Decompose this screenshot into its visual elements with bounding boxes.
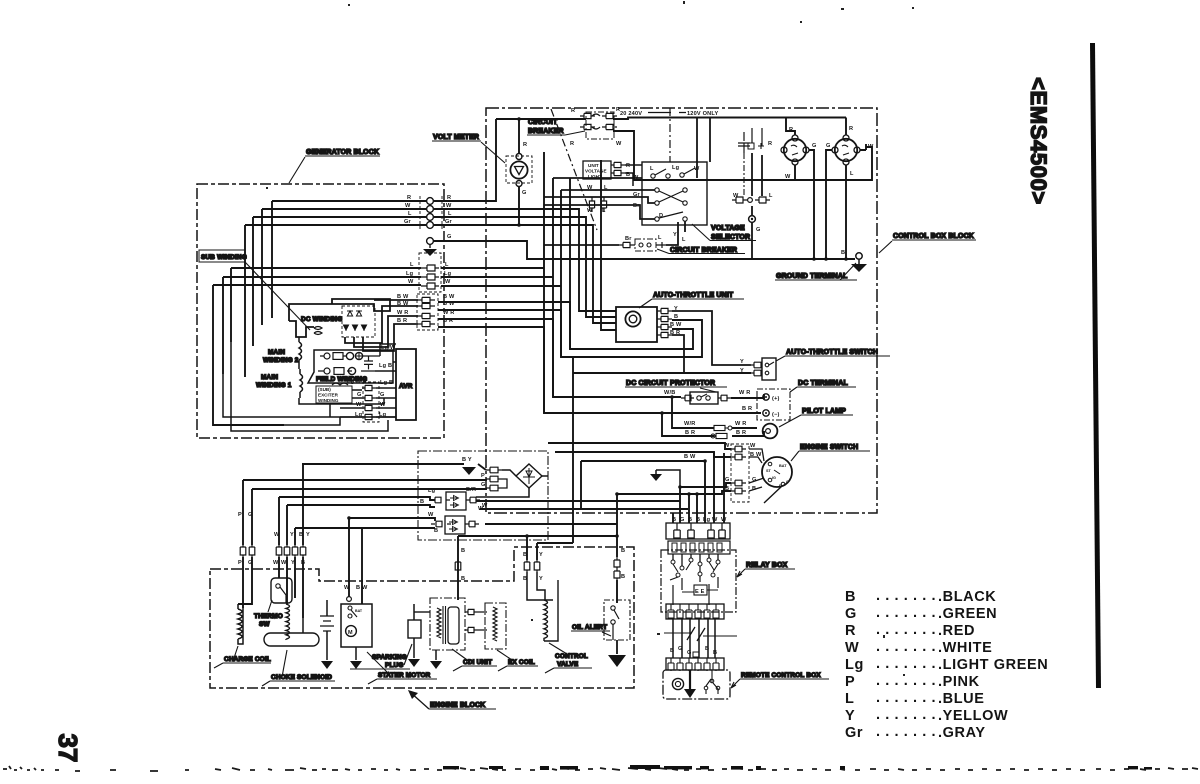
svg-text:PLUG: PLUG bbox=[385, 662, 404, 669]
circuit breaker (top) bbox=[586, 112, 614, 139]
bus B bottom bbox=[458, 535, 617, 537]
circuit breaker 2 bbox=[635, 239, 656, 251]
stater motor bbox=[341, 604, 372, 647]
ex coil bbox=[485, 603, 506, 649]
field winding row1 bbox=[324, 353, 330, 359]
junction BR bbox=[660, 411, 664, 415]
wire WR branch to pilot bbox=[672, 397, 757, 428]
ground stub under G node bbox=[429, 244, 431, 248]
svg-text:MAIN: MAIN bbox=[268, 349, 285, 356]
svg-text:W: W bbox=[445, 279, 451, 285]
svg-text:Y: Y bbox=[740, 359, 744, 365]
vertical feeds selector area down bbox=[696, 118, 698, 179]
svg-text:L: L bbox=[408, 211, 412, 217]
cdi B wire bbox=[457, 536, 459, 600]
wire relay feed W2 column bbox=[723, 453, 725, 523]
control box block boundary bbox=[486, 108, 877, 513]
wire labels W Y B Y bbox=[273, 532, 310, 566]
wire assembly2 output bbox=[485, 523, 617, 525]
SECTION TOPCONTROL bbox=[432, 107, 976, 513]
svg-text:.PINK: .PINK bbox=[938, 674, 980, 690]
svg-text:W/B: W/B bbox=[664, 390, 675, 396]
svg-text:Br: Br bbox=[625, 236, 632, 242]
connector plugs BW BW WR BR bbox=[417, 294, 438, 330]
svg-text:EXCITER: EXCITER bbox=[318, 393, 339, 398]
svg-text:. . . . . . .: . . . . . . . bbox=[876, 622, 936, 638]
svg-text:CHOKE SOLENOID: CHOKE SOLENOID bbox=[271, 674, 332, 681]
svg-text:.YELLOW: .YELLOW bbox=[938, 708, 1008, 724]
scan noise strip bottom bbox=[3, 766, 1198, 771]
auto-throttle switch bbox=[762, 358, 776, 380]
chain verticals 120V bbox=[743, 153, 745, 196]
svg-text:REMOTE CONTROL BOX: REMOTE CONTROL BOX bbox=[741, 672, 821, 679]
svg-text:.GRAY: .GRAY bbox=[938, 725, 986, 741]
svg-text:B R: B R bbox=[397, 318, 407, 324]
svg-text:. . . . . . .: . . . . . . . bbox=[876, 673, 936, 689]
pilot lamp bbox=[763, 424, 778, 439]
wire BR gen to DC terminal bbox=[438, 327, 761, 413]
svg-text:B: B bbox=[674, 314, 678, 320]
wire W mid bbox=[213, 285, 421, 425]
svg-text:120V ONLY: 120V ONLY bbox=[687, 111, 719, 117]
relay feed verticals bbox=[679, 487, 681, 523]
unit voltage light box bbox=[583, 161, 611, 179]
auto-throttle unit plugs bbox=[657, 308, 672, 313]
svg-text:Lg: Lg bbox=[672, 165, 680, 171]
remote lamp bbox=[672, 678, 683, 689]
svg-text:Y: Y bbox=[539, 576, 543, 582]
svg-text:<EMS4500>: <EMS4500> bbox=[1026, 77, 1051, 205]
svg-text:GENERATOR BLOCK: GENERATOR BLOCK bbox=[306, 149, 379, 156]
plug G bbox=[731, 480, 746, 486]
label R / G- near meter bbox=[522, 142, 527, 196]
svg-text:B W: B W bbox=[670, 322, 682, 328]
dc circuit protector bbox=[690, 392, 718, 404]
svg-text:W R: W R bbox=[739, 390, 750, 396]
selector cross switch bbox=[655, 188, 659, 192]
engine switch wire to ground bbox=[764, 486, 782, 503]
svg-text:W: W bbox=[405, 203, 411, 209]
label W pair bbox=[356, 402, 386, 408]
relay bottom strip bbox=[666, 604, 724, 619]
relay box boundary bbox=[661, 550, 736, 612]
sparking plug bbox=[408, 620, 421, 638]
svg-text:OIL ALERT: OIL ALERT bbox=[572, 624, 607, 631]
wire R top bbox=[272, 201, 427, 318]
svg-text:.RED: .RED bbox=[938, 623, 975, 639]
svg-text:W: W bbox=[274, 532, 280, 538]
svg-text:CHARGE COIL: CHARGE COIL bbox=[224, 656, 271, 663]
plugs P G bbox=[240, 545, 246, 557]
label 240V / 120V ONLY bbox=[620, 111, 719, 117]
svg-text:ENGINE SWITCH: ENGINE SWITCH bbox=[800, 444, 858, 451]
engine switch plugs box bbox=[731, 444, 749, 502]
exciter coil bbox=[332, 383, 348, 385]
wire labels BW BW WR BR bbox=[397, 294, 455, 324]
svg-text:B R: B R bbox=[736, 430, 746, 436]
svg-text:VALVE: VALVE bbox=[557, 661, 579, 668]
thermo switch bbox=[278, 557, 280, 578]
auto-throttle unit bbox=[616, 307, 657, 342]
svg-text:. . . . . . .: . . . . . . . bbox=[876, 724, 936, 740]
label G pair bbox=[357, 392, 385, 398]
plugs W W Y B bbox=[276, 545, 282, 557]
CB2 wires bbox=[544, 221, 685, 245]
volt meter bbox=[506, 156, 532, 183]
svg-text:W R: W R bbox=[397, 310, 408, 316]
wire R bus east riser bbox=[434, 119, 496, 201]
svg-text:IG: IG bbox=[772, 476, 776, 480]
svg-text:G: G bbox=[357, 392, 362, 398]
wire Lg mid bbox=[223, 277, 421, 374]
wire BW2 gen to Y2 bbox=[438, 310, 702, 357]
label Lg B right bbox=[379, 363, 392, 369]
wire labels R W L Gr left bbox=[404, 195, 412, 225]
main winding 2 coil bbox=[299, 337, 302, 365]
svg-text:Lg B: Lg B bbox=[379, 363, 392, 369]
svg-text:20 240V: 20 240V bbox=[620, 111, 642, 117]
connector plugs L Lg W bbox=[419, 253, 441, 292]
wire W top bbox=[262, 209, 427, 325]
svg-text:L: L bbox=[650, 166, 654, 172]
diode bridge bbox=[516, 464, 542, 488]
dc winding diode box bbox=[342, 306, 375, 337]
svg-text:DC CIRCUIT PROTECTOR: DC CIRCUIT PROTECTOR bbox=[626, 380, 715, 387]
oil alert ground bbox=[616, 640, 618, 654]
selector feed wires bbox=[553, 177, 642, 179]
svg-text:.WHITE: .WHITE bbox=[938, 640, 992, 656]
scan noise dots top bbox=[266, 1, 914, 676]
svg-text:B: B bbox=[461, 576, 465, 582]
svg-text:P: P bbox=[845, 674, 855, 690]
label B W bbox=[684, 454, 696, 460]
wire BR unit down bbox=[672, 335, 684, 373]
remote control box bbox=[663, 670, 730, 699]
svg-text:R: R bbox=[626, 163, 630, 169]
svg-text:Y: Y bbox=[673, 232, 677, 238]
bus left W stater bbox=[349, 518, 435, 521]
sub winding leader bbox=[245, 262, 310, 330]
svg-text:B W: B W bbox=[356, 585, 368, 591]
label Lg B mid bbox=[347, 379, 393, 386]
choke solenoid capsule bbox=[264, 633, 319, 646]
middle assembly box bbox=[418, 451, 548, 540]
boundary diagonal notch bbox=[551, 109, 597, 230]
wires exciter to plugs bbox=[340, 390, 362, 417]
svg-text:G: G bbox=[522, 190, 527, 196]
plug assembly W L bbox=[732, 197, 748, 203]
wire volt meter bottom to Gr bus bbox=[518, 187, 520, 226]
bus left W2 bbox=[287, 505, 435, 507]
svg-text:CIRCUIT: CIRCUIT bbox=[528, 119, 558, 126]
svg-text:Lg: Lg bbox=[703, 517, 711, 523]
wire L mid bbox=[231, 268, 421, 342]
svg-text:BAT: BAT bbox=[355, 609, 363, 613]
cdi to ex coil plugs bbox=[465, 609, 487, 614]
svg-text:Y: Y bbox=[740, 368, 744, 374]
long W wires to relay bbox=[476, 500, 680, 502]
oil alert feed wire bbox=[616, 494, 618, 557]
svg-text:G: G bbox=[812, 143, 817, 149]
svg-text:G: G bbox=[680, 517, 685, 523]
svg-text:L: L bbox=[850, 171, 854, 177]
svg-text:G: G bbox=[678, 646, 683, 652]
relay top connector strip bbox=[666, 523, 730, 539]
svg-text:W: W bbox=[587, 185, 593, 191]
svg-text:L: L bbox=[682, 237, 686, 243]
svg-text:G: G bbox=[756, 227, 761, 233]
wire labels L Lg W bbox=[406, 262, 452, 285]
svg-text:M: M bbox=[348, 630, 353, 636]
svg-text:. . . . . . .: . . . . . . . bbox=[876, 656, 936, 672]
control valve wires bbox=[526, 536, 528, 560]
ground bbox=[650, 474, 662, 481]
bus left Y bbox=[295, 527, 435, 529]
wire engine W feed bbox=[548, 443, 731, 449]
wire BR branch to pilot bbox=[662, 413, 764, 436]
winding interconnect wires bbox=[298, 365, 300, 369]
svg-text:AVR: AVR bbox=[399, 383, 413, 390]
svg-text:B/R: B/R bbox=[466, 487, 476, 493]
connector plugs to AVR bbox=[362, 382, 379, 422]
svg-text:RELAY BOX: RELAY BOX bbox=[746, 562, 788, 569]
svg-text:R: R bbox=[845, 623, 856, 639]
dc terminal box bbox=[757, 389, 790, 420]
label Lg pair bbox=[355, 412, 387, 418]
svg-text:P: P bbox=[238, 512, 242, 518]
node G connector bbox=[427, 238, 434, 245]
svg-text:R: R bbox=[849, 126, 853, 132]
svg-text:CONTROL: CONTROL bbox=[555, 653, 588, 660]
svg-text:L: L bbox=[845, 691, 854, 707]
svg-text:B W: B W bbox=[397, 301, 409, 307]
svg-text:G: G bbox=[447, 234, 452, 240]
svg-text:G: G bbox=[845, 606, 857, 622]
svg-text:E E: E E bbox=[695, 589, 705, 595]
svg-text:W: W bbox=[750, 443, 756, 449]
svg-text:W: W bbox=[868, 144, 874, 150]
svg-text:G: G bbox=[687, 650, 692, 656]
svg-text:B: B bbox=[621, 574, 625, 580]
svg-text:VOLTAGE: VOLTAGE bbox=[711, 225, 745, 232]
wire BW1 gen to Y1 bbox=[438, 302, 693, 349]
svg-text:B W: B W bbox=[443, 294, 455, 300]
svg-text:(SUB): (SUB) bbox=[318, 387, 331, 392]
svg-text:.GREEN: .GREEN bbox=[938, 606, 997, 622]
svg-text:Lg: Lg bbox=[444, 271, 452, 277]
dc winding outline bbox=[289, 299, 390, 321]
wire Gr top bbox=[245, 225, 427, 377]
svg-text:B: B bbox=[688, 517, 692, 523]
svg-text:W/R: W/R bbox=[684, 421, 695, 427]
svg-text:G: G bbox=[380, 392, 385, 398]
svg-text:W: W bbox=[344, 585, 350, 591]
svg-text:L: L bbox=[410, 262, 414, 268]
svg-text:D: D bbox=[659, 213, 663, 219]
svg-text:W: W bbox=[785, 174, 791, 180]
node G connector bbox=[749, 216, 756, 223]
svg-text:WINDING 1: WINDING 1 bbox=[256, 382, 292, 389]
fuse B R bbox=[714, 433, 727, 438]
pilot wire labels bbox=[664, 390, 752, 436]
svg-text:Lg/W: Lg/W bbox=[381, 345, 396, 351]
ground capacitor bbox=[321, 661, 333, 669]
diodes bbox=[347, 311, 362, 316]
plug BW bbox=[731, 454, 746, 460]
bus W from breaker bbox=[613, 131, 872, 180]
svg-text:B: B bbox=[461, 548, 465, 554]
wire WR gen to protector bbox=[438, 319, 681, 397]
svg-text:R: R bbox=[570, 141, 574, 147]
svg-text:ST: ST bbox=[766, 469, 772, 473]
bottom bus wires bbox=[284, 417, 340, 425]
sub winding label bbox=[199, 250, 245, 262]
label B Y bbox=[462, 457, 472, 463]
bus Y valve bbox=[537, 542, 573, 544]
remote arrow down bbox=[689, 670, 691, 689]
cdi unit bbox=[430, 598, 465, 650]
wire field to AVR top bbox=[380, 344, 396, 356]
plug stack P G bbox=[486, 467, 502, 473]
ground terminal bbox=[856, 253, 862, 259]
svg-text:Y: Y bbox=[290, 532, 294, 538]
svg-text:.BLACK: .BLACK bbox=[938, 589, 996, 605]
engine switch bbox=[762, 457, 792, 487]
selector top row contacts L Lg W bbox=[650, 165, 700, 172]
relay inner top strip bbox=[668, 541, 730, 554]
wire L Lg W mid east runs bbox=[441, 268, 561, 286]
svg-text:. . . . . . .: . . . . . . . bbox=[876, 690, 936, 706]
stater motor wires bbox=[348, 518, 350, 597]
SECTION RELAY bbox=[614, 494, 829, 699]
svg-text:P: P bbox=[481, 473, 485, 479]
svg-text:VOLTAGE: VOLTAGE bbox=[585, 169, 607, 174]
diode assembly 1 bbox=[446, 492, 466, 510]
svg-text:L: L bbox=[658, 235, 662, 241]
svg-text:B: B bbox=[523, 552, 527, 558]
svg-text:R: R bbox=[789, 127, 793, 133]
junction WR bbox=[670, 395, 674, 399]
wire labels R W L Gr right bbox=[445, 195, 453, 225]
svg-text:Y: Y bbox=[539, 552, 543, 558]
svg-text:(+): (+) bbox=[772, 396, 780, 402]
svg-text:Y: Y bbox=[845, 708, 855, 724]
svg-text:B: B bbox=[621, 548, 625, 554]
main winding 1 coil bbox=[300, 369, 303, 398]
svg-text:G: G bbox=[826, 143, 831, 149]
unit voltage light plugs bbox=[611, 162, 625, 167]
wire L top bbox=[253, 217, 427, 346]
wire G bus engine bbox=[680, 483, 731, 487]
wire trunk columns bbox=[544, 152, 570, 413]
svg-text:Br: Br bbox=[633, 203, 640, 209]
svg-text:VOLT METER: VOLT METER bbox=[433, 134, 479, 141]
wire G to ground bus bbox=[433, 241, 855, 259]
svg-text:. . . . . . .: . . . . . . . bbox=[876, 588, 936, 604]
svg-text:GROUND TERMINAL: GROUND TERMINAL bbox=[776, 273, 848, 280]
label Lg/W bbox=[381, 345, 396, 351]
SECTION MIDDLE bbox=[434, 160, 890, 543]
svg-text:Lg: Lg bbox=[406, 271, 414, 277]
svg-text:G: G bbox=[248, 512, 253, 518]
wire protector to dc terminal bbox=[731, 394, 764, 398]
upright plugs W L bbox=[589, 197, 594, 212]
wire relay feed B1 stub bbox=[672, 513, 674, 523]
svg-text:W: W bbox=[380, 402, 386, 408]
svg-text:L: L bbox=[769, 193, 773, 199]
svg-text:CONTROL BOX BLOCK: CONTROL BOX BLOCK bbox=[893, 233, 974, 240]
svg-text:Lg B: Lg B bbox=[380, 380, 393, 386]
receptacle wires bbox=[786, 118, 795, 136]
svg-text:Lg B: Lg B bbox=[347, 379, 360, 385]
svg-text:L: L bbox=[604, 185, 608, 191]
connector group R W L Gr bbox=[420, 196, 442, 230]
ground stub wire bbox=[656, 470, 680, 487]
svg-text:P: P bbox=[238, 560, 242, 566]
wire volt meter top bbox=[496, 119, 586, 154]
wire labels P G bbox=[238, 512, 253, 566]
bus left G bbox=[252, 488, 486, 489]
svg-text:UNIT: UNIT bbox=[588, 163, 599, 168]
plug W bbox=[731, 446, 746, 452]
svg-text:B R: B R bbox=[685, 430, 695, 436]
auto-throttle feed verticals bbox=[434, 209, 616, 311]
SECTION ENGINE bbox=[210, 451, 688, 709]
wire B column down bbox=[572, 358, 574, 543]
svg-text:SUB WINDING: SUB WINDING bbox=[201, 254, 247, 261]
svg-text:B: B bbox=[845, 589, 856, 605]
voltage selector box bbox=[642, 162, 707, 225]
bus left P bbox=[243, 479, 486, 480]
svg-text:SPARKING: SPARKING bbox=[372, 654, 407, 661]
svg-text:B: B bbox=[705, 646, 709, 652]
svg-text:L: L bbox=[445, 262, 449, 268]
bus left W1 bbox=[279, 497, 435, 500]
svg-text:B W: B W bbox=[397, 294, 409, 300]
svg-text:W: W bbox=[408, 279, 414, 285]
svg-text:B: B bbox=[713, 650, 717, 656]
receptacle R1 bbox=[784, 139, 806, 161]
oil alert plugs bbox=[614, 557, 620, 569]
svg-text:BAT: BAT bbox=[779, 464, 787, 468]
dc winding wires to connectors bbox=[374, 299, 418, 301]
svg-text:R: R bbox=[571, 108, 575, 114]
svg-text:B: B bbox=[670, 648, 674, 654]
svg-text:W: W bbox=[845, 640, 859, 656]
page edge bar (right vertical rule) bbox=[1093, 43, 1099, 688]
ats plugs bbox=[751, 362, 761, 368]
svg-text:BREAKER: BREAKER bbox=[528, 128, 564, 135]
control valve coil bbox=[544, 600, 548, 641]
svg-text:Gr: Gr bbox=[845, 725, 863, 741]
svg-text:W: W bbox=[482, 503, 488, 509]
svg-text:PILOT LAMP: PILOT LAMP bbox=[802, 408, 846, 415]
SECTION LEGEND bbox=[845, 588, 1048, 741]
field winding box bbox=[308, 350, 393, 383]
wire relay feed B column bbox=[688, 494, 690, 523]
SECTION GENERATOR bbox=[197, 149, 855, 438]
svg-text:W: W bbox=[633, 175, 639, 181]
cable break slashes bbox=[664, 633, 737, 636]
svg-text:(−): (−) bbox=[772, 412, 780, 418]
wire B W long run bbox=[581, 461, 705, 509]
remote switches bbox=[704, 686, 708, 690]
fuse W/R bbox=[714, 425, 728, 430]
svg-text:W: W bbox=[712, 517, 718, 523]
svg-text:STATER MOTOR: STATER MOTOR bbox=[378, 672, 431, 679]
relay E E block bbox=[694, 585, 707, 595]
svg-text:. . . . . . .: . . . . . . . bbox=[876, 707, 936, 723]
